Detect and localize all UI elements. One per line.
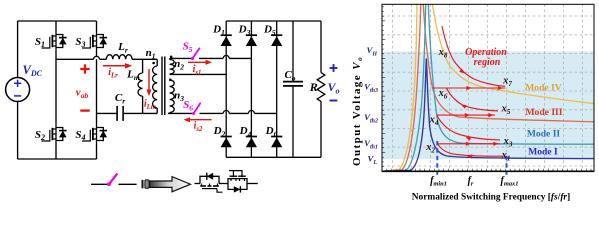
transformer core [161, 57, 163, 116]
capacitor Co branch wire upper [292, 21, 294, 82]
transformer primary n1 [156, 59, 158, 66]
chart x axis emphasized [382, 170, 594, 172]
transistor S4 MOSFET with body diode [96, 123, 98, 145]
wire hop over leg2 [94, 56, 100, 59]
wire hop over rectifier leg1 [223, 55, 229, 58]
svg-text:R: R [309, 80, 318, 94]
label + of vab [80, 68, 89, 70]
curve Mode IV gain (gold) [385, 4, 417, 171]
curve Mode I gain (navy) [385, 59, 594, 172]
wire leg2 middle (node b) [96, 52, 98, 123]
curve Mode II gain (teal) [385, 4, 426, 171]
red trajectory curve x6 to x5 [447, 88, 499, 111]
current arrow iLr [103, 65, 128, 67]
wire hop over rectifier leg2 (bottom) [248, 110, 254, 113]
legend switch lever (magenta) [107, 182, 111, 186]
wire leg1 lower [55, 145, 57, 159]
chart plot border [382, 4, 594, 171]
legend switch wire right [119, 183, 137, 185]
transistor S3 MOSFET with body diode [96, 30, 98, 52]
svg-text:Output Voltage Vo: Output Voltage Vo [351, 56, 364, 166]
blue dashed line fmin1 [436, 141, 438, 175]
legend big arrow [150, 177, 191, 192]
chart gridlines [382, 4, 594, 171]
wire rectifier leg at x=276.7 [276, 21, 278, 157]
wire bottom rail [18, 158, 97, 160]
wire n3 to S6 [168, 112, 192, 114]
secondary dot n2 [170, 56, 173, 59]
legend switch wire left [91, 183, 107, 185]
legend MOSFET implementation 2 lead out [247, 183, 258, 185]
wire node a to Lr [56, 58, 94, 60]
legend MOSFET implementation 1 to 2 wire [219, 183, 228, 185]
current arrow iLm [148, 69, 150, 92]
diode D2 (bottom) [221, 138, 232, 148]
legend MOSFET implementation 1 lead [195, 183, 201, 185]
svg-text:Normalized Switching Frequency: Normalized Switching Frequency [fs/fr] [412, 193, 570, 203]
chart axis ticks [382, 7, 591, 172]
wire node b to Cr [97, 112, 118, 114]
voltage source VDC [6, 78, 30, 102]
transformer secondary n2 [169, 58, 171, 59]
wire left vertical from VDC to bottom rail [17, 102, 19, 160]
svg-text:Mode IV: Mode IV [525, 82, 562, 93]
transistor S2 MOSFET with body diode [55, 123, 57, 145]
legend equals bars [142, 180, 144, 188]
svg-text:Mode II: Mode II [527, 128, 561, 139]
wire leg2 upper [96, 21, 98, 30]
switch S6 [192, 112, 195, 115]
legend MOSFET implementation 2 (back-to-back MOSFETs + diode) [228, 179, 247, 184]
capacitor Cr [116, 106, 118, 121]
resistor R branch wire upper [320, 21, 322, 73]
wire Cr to transformer bottom [123, 112, 157, 114]
label + of Vo [330, 67, 338, 69]
wire rectifier top rail [226, 20, 321, 22]
svg-text:region: region [474, 57, 501, 68]
capacitor Co [283, 81, 303, 83]
wire rectifier bottom rail [226, 156, 321, 158]
label - of vab [80, 109, 89, 111]
wire leg1 upper [55, 21, 57, 30]
inductor Lm branch [142, 59, 144, 73]
secondary dot n3 [169, 78, 172, 81]
wire rectifier leg at x=226.2 [225, 21, 227, 157]
current arrow is2 [187, 119, 211, 121]
diode D1 (top) [221, 36, 232, 46]
transformer secondary n3 [170, 80, 175, 113]
chart operation-region shaded band [382, 52, 594, 160]
capacitor Co branch wire lower [292, 86, 294, 157]
wire leg2 lower [96, 145, 98, 159]
red trajectory curve x2 to x1 [438, 144, 503, 156]
switch S5 [191, 57, 194, 60]
wire top rail [18, 20, 97, 22]
diode D3 (top) [246, 36, 257, 46]
red trajectory curve x8 to x7 [442, 26, 505, 86]
center tap wire to rectifier leg1 [170, 73, 227, 75]
diode D5 (top) [271, 36, 282, 46]
primary phase dot [152, 62, 155, 65]
wire S5 to rectifier leg2 [199, 57, 223, 59]
diode D6 (bottom) [271, 138, 282, 148]
wire hop over rectifier leg1 (bottom) [223, 110, 229, 113]
red trajectory arrow line at Vth3 [433, 87, 506, 89]
wire S6 to rectifier leg3 [200, 112, 224, 114]
svg-text:Mode III: Mode III [525, 107, 562, 118]
diode D4 (bottom) [246, 138, 257, 148]
blue dashed line fmax1 [506, 156, 508, 175]
red trajectory arrow line at Vth1 [438, 143, 500, 145]
label - of Vo [330, 100, 338, 102]
resistor R zigzag [317, 73, 325, 102]
wire left vertical from VDC to top rail [17, 21, 19, 78]
svg-text:Mode I: Mode I [528, 147, 558, 158]
inductor Lr [106, 55, 132, 60]
current arrow is1 [188, 61, 208, 63]
wire rectifier leg at x=251.4 [250, 21, 252, 157]
red trajectory curve x4 to x3 [437, 115, 500, 140]
legend MOSFET implementation 1 (diode + MOSFET) [200, 176, 219, 183]
resistor R branch wire lower [320, 101, 322, 157]
wire Lr to transformer [132, 58, 157, 60]
transistor S1 MOSFET with body diode [55, 30, 57, 52]
wire n2 to S5 [170, 57, 193, 59]
red trajectory arrow line at Vth2 [437, 114, 495, 116]
wire leg1 middle (node a) [55, 52, 57, 123]
curve Mode III gain (salmon) [385, 4, 421, 171]
